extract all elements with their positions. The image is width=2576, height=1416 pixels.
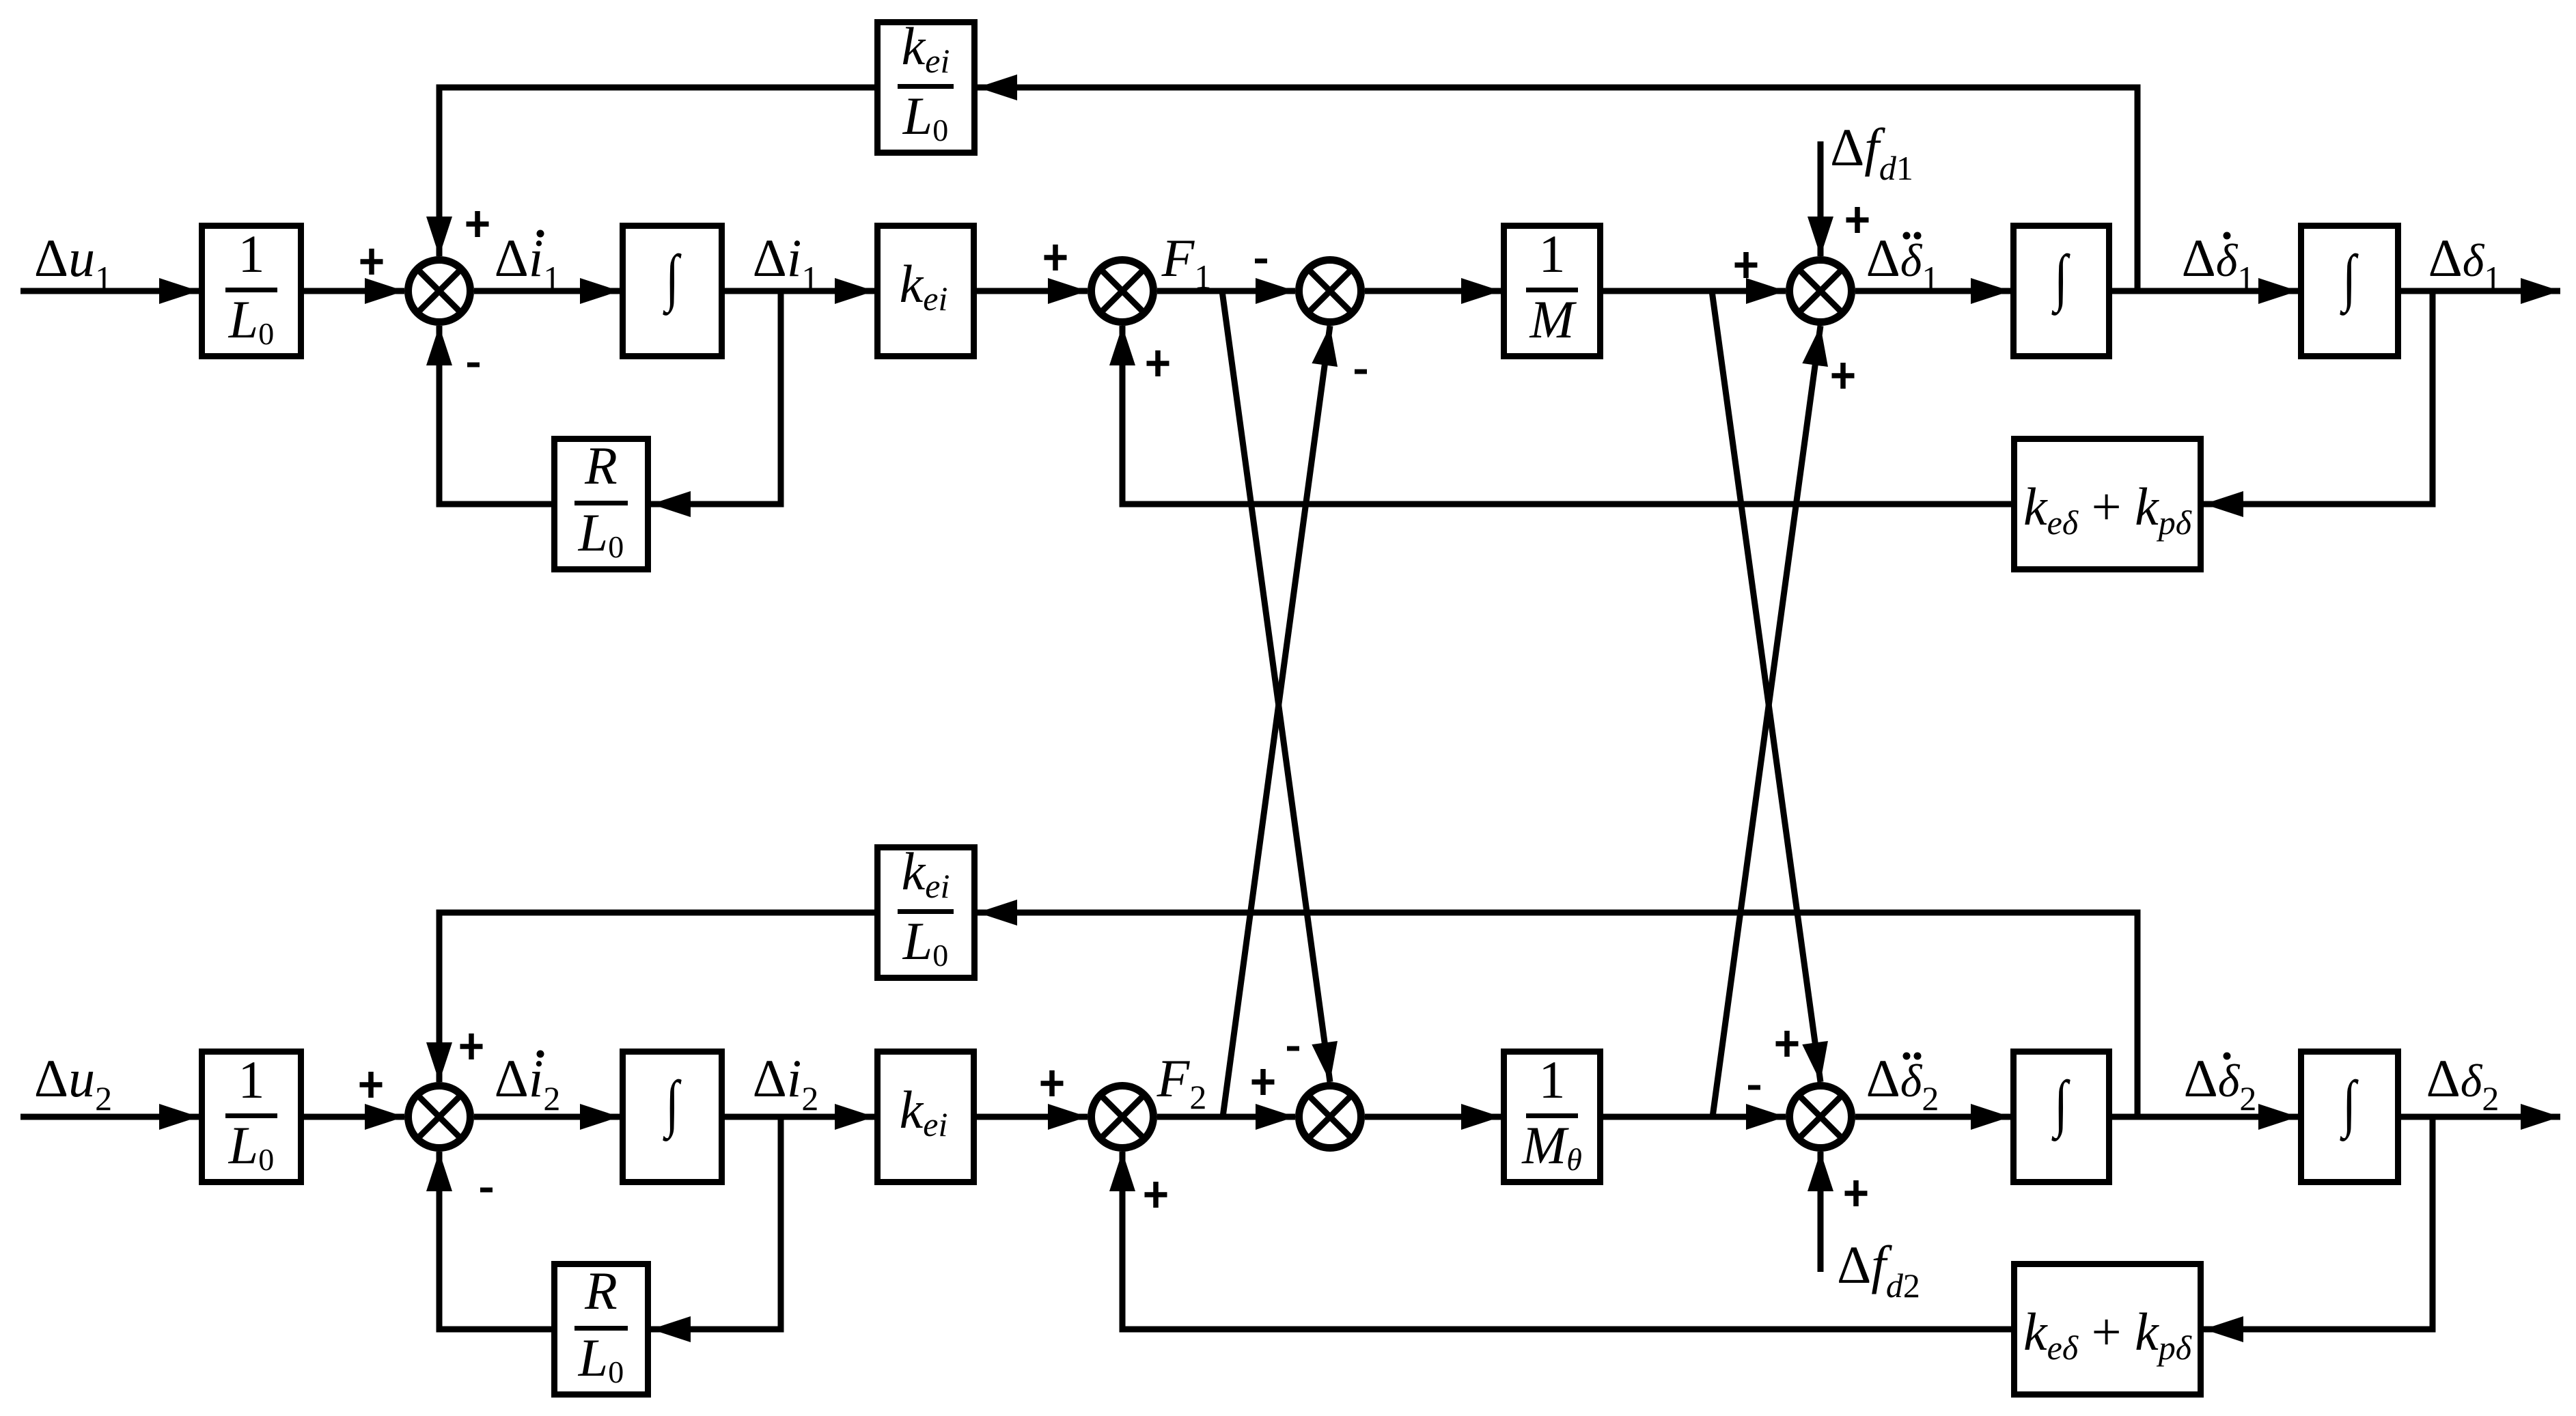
block 1/Mtheta (ch2)	[1504, 1050, 1601, 1182]
wire S1 to integrator I1 (ch2)	[474, 1104, 620, 1130]
sign + at S4 top input (ch1)	[1846, 207, 1869, 233]
wire kei to sum S2 (ch1)	[977, 278, 1088, 304]
wire cross-coupling F2 to S3 (ch1)	[1223, 326, 1338, 1117]
sign + at S1 left input (ch2)	[360, 1072, 383, 1098]
wire kei/L0 output to S1 top (ch2)	[426, 913, 874, 1082]
block kei gain (ch2)	[878, 1052, 974, 1182]
sign + at S3 left input (ch2)	[1252, 1069, 1275, 1095]
wire I2 to integrator I3 (ch2)	[2112, 1104, 2298, 1130]
summing junction S2 (ch1)	[1092, 260, 1154, 322]
label Di-dot1	[495, 228, 561, 297]
wire S3 to 1/M block (ch1)	[1365, 278, 1501, 304]
label Dddacc1	[1866, 228, 1939, 297]
summing junction S2 (ch2)	[1092, 1086, 1154, 1148]
sign + at S4 left input (ch1)	[1735, 252, 1758, 278]
summing junction S1 (ch1)	[408, 260, 471, 322]
sign - at S3 bottom input (ch1)	[1355, 370, 1367, 374]
sign + at S1 top input (ch2)	[460, 1033, 483, 1059]
block R/L0 feedback gain (ch2)	[555, 1261, 648, 1395]
svg-text:1: 1	[238, 224, 265, 283]
sign + at S2 bottom input (ch2)	[1145, 1182, 1167, 1208]
wire I2 to integrator I3 (ch1)	[2112, 278, 2298, 304]
sign + at S4 bottom input (ch2)	[1845, 1180, 1868, 1206]
sign + at S1 top input (ch1)	[467, 211, 489, 237]
label Ddvel1	[2182, 228, 2255, 297]
block integrator I2 (ch1)	[2014, 226, 2109, 357]
wire kei/L0 output to S1 top (ch1)	[426, 87, 874, 256]
label Du1 input	[34, 228, 112, 297]
wire output delta2	[2401, 1104, 2560, 1130]
summing junction S3 (ch1)	[1299, 260, 1361, 322]
block 1/L0 (ch2)	[202, 1050, 301, 1182]
sign + at S4 bottom input (ch1)	[1832, 363, 1855, 389]
label Du2 input	[34, 1049, 112, 1117]
wire ked+kpd output to S2 bottom (ch1)	[1109, 326, 2011, 504]
wire 1/L0 to sum S1 (ch2)	[304, 1104, 404, 1130]
block R/L0 feedback gain (ch1)	[555, 436, 648, 570]
sign + at S2 left input (ch1)	[1044, 245, 1067, 270]
label Di1	[753, 228, 819, 297]
svg-text:1: 1	[1539, 1050, 1566, 1109]
label Ddelta1 output	[2428, 228, 2502, 297]
wire 1/M to sum S4 (ch1)	[1603, 278, 1786, 304]
wire delta branch to ked+kpd (ch1)	[2204, 291, 2433, 517]
sign + at S1 left input (ch1)	[361, 249, 383, 275]
summing junction S4 (ch2)	[1790, 1086, 1852, 1148]
block 1/L0 (ch1)	[202, 224, 301, 357]
label Di-dot2	[495, 1049, 561, 1117]
label Dfd2 disturbance	[1837, 1235, 1920, 1305]
wire delta branch to ked+kpd (ch2)	[2204, 1117, 2433, 1342]
svg-text:1: 1	[238, 1050, 265, 1109]
block kei/L0 feedback gain (ch2)	[878, 842, 975, 978]
label Dddacc2	[1866, 1049, 1939, 1117]
wire input u2	[20, 1104, 199, 1130]
sign + at S4 top input (ch2)	[1776, 1031, 1799, 1057]
svg-text:R: R	[584, 436, 618, 495]
sign + at S2 left input (ch2)	[1041, 1070, 1064, 1096]
wire input u1	[20, 278, 199, 304]
block integrator I1 (ch2)	[623, 1052, 722, 1182]
sign - at S1 bottom input (ch2)	[480, 1188, 493, 1193]
block integrator I3 (ch1)	[2301, 226, 2398, 357]
block integrator I2 (ch2)	[2014, 1052, 2109, 1182]
label Dfd1 disturbance	[1830, 117, 1913, 187]
wire 1/L0 to sum S1 (ch1)	[304, 278, 404, 304]
label Ddelta2 output	[2426, 1049, 2499, 1117]
wire S4 to integrator I2 (ch2)	[1855, 1104, 2010, 1130]
wire kei/L0 feedback tap (ch1)	[978, 74, 2137, 291]
sign - at S3 left input (ch1)	[1255, 259, 1267, 264]
block ked+kpd feedback gain (ch1)	[2014, 439, 2201, 570]
summing junction S1 (ch2)	[408, 1086, 471, 1148]
wire disturbance fd1 input	[1808, 141, 1833, 256]
wire Di branch to R/L0 (ch1)	[651, 291, 781, 517]
wire kei/L0 feedback tap (ch2)	[978, 900, 2137, 1117]
label F2	[1157, 1049, 1207, 1116]
wire Di branch to R/L0 (ch2)	[651, 1117, 781, 1342]
block integrator I1 (ch1)	[623, 226, 722, 357]
block integrator I3 (ch2)	[2301, 1052, 2398, 1182]
sign - at S4 left input (ch2)	[1748, 1085, 1760, 1090]
wire disturbance fd2 input	[1808, 1152, 1833, 1272]
wire ked+kpd output to S2 bottom (ch2)	[1109, 1152, 2011, 1329]
label Di2	[753, 1049, 819, 1117]
wire R/L0 output to S1 bottom (ch1)	[426, 326, 551, 504]
wire cross-coupling ddacc1 to S4 (ch2)	[1712, 291, 1828, 1082]
wire 1/M to sum S4 (ch2)	[1603, 1104, 1786, 1130]
block ked+kpd feedback gain (ch2)	[2014, 1264, 2201, 1395]
block kei gain (ch1)	[878, 226, 974, 357]
wire S3 to 1/M block (ch2)	[1365, 1104, 1501, 1130]
sign - at S3 top input (ch2)	[1287, 1046, 1299, 1051]
wire I1 to kei (ch1)	[725, 278, 874, 304]
summing junction S3 (ch2)	[1299, 1086, 1361, 1148]
label F1	[1161, 228, 1212, 296]
wire kei to sum S2 (ch2)	[977, 1104, 1088, 1130]
wire S4 to integrator I2 (ch1)	[1855, 278, 2010, 304]
wire S2 to sum S3 (ch2)	[1157, 1104, 1295, 1130]
block 1/M (ch1)	[1504, 224, 1601, 357]
wire I1 to kei (ch2)	[725, 1104, 874, 1130]
label Ddvel2	[2184, 1049, 2257, 1117]
wire cross-coupling F1 to S3 (ch2)	[1222, 291, 1338, 1082]
block kei/L0 feedback gain (ch1)	[878, 16, 975, 153]
wire S1 to integrator I1 (ch1)	[474, 278, 620, 304]
wire cross-coupling ddacc2 to S4 (ch1)	[1713, 326, 1828, 1117]
sign - at S1 bottom input (ch1)	[467, 363, 480, 367]
summing junction S4 (ch1)	[1790, 260, 1852, 322]
wire S2 to sum S3 (ch1)	[1157, 278, 1295, 304]
svg-text:1: 1	[1539, 224, 1566, 283]
svg-text:M: M	[1529, 290, 1577, 349]
svg-text:R: R	[584, 1261, 618, 1320]
sign + at S2 bottom input (ch1)	[1147, 350, 1169, 376]
wire R/L0 output to S1 bottom (ch2)	[426, 1152, 551, 1329]
wire output delta1	[2401, 278, 2560, 304]
